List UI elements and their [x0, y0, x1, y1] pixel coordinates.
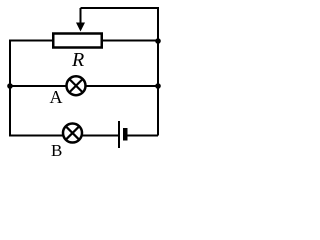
svg-text:B: B: [51, 141, 62, 160]
svg-text:A: A: [50, 87, 63, 107]
svg-text:R: R: [71, 49, 84, 71]
